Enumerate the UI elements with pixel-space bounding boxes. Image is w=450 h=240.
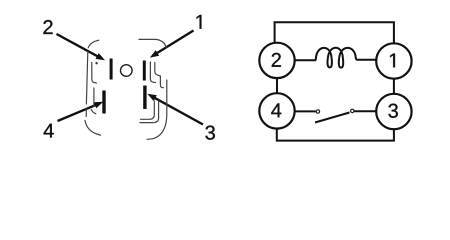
connector housing left half outline (85, 40, 101, 135)
wire terminal 2 to terminal 4 (276, 78, 278, 93)
wire bottom border (277, 129, 394, 141)
switch right contact (351, 109, 354, 112)
pin 4 terminal (102, 91, 105, 114)
lead line arrow to pin 4 (58, 102, 104, 121)
switch left contact (316, 110, 319, 113)
housing detail dot (95, 62, 97, 64)
terminal circle 1 (376, 43, 411, 78)
pin 2 terminal (110, 59, 113, 80)
lead line arrow to pin 1 (150, 31, 194, 58)
wire terminal 1 to terminal 3 (393, 79, 395, 94)
terminal circle 4 (259, 93, 294, 128)
wire top border (275, 22, 394, 43)
lead line arrow to pin 3 (147, 94, 203, 125)
connector housing right half outline (139, 39, 167, 139)
inductor coil (316, 48, 357, 68)
pin 3 terminal (143, 86, 146, 110)
terminal circle 2 (259, 43, 294, 78)
wire terminal 2 to coil (295, 59, 316, 61)
label pin 1 (197, 15, 202, 29)
wire coil to terminal 1 (356, 59, 376, 61)
terminal circle 3 (376, 94, 411, 129)
label pin 4 (44, 124, 54, 138)
wire terminal 4 to switch (295, 110, 316, 112)
lead line arrow to pin 2 (57, 34, 106, 60)
switch blade (315, 113, 350, 123)
label pin 3 (205, 126, 214, 140)
wire switch to terminal 3 (355, 110, 377, 112)
label pin 2 (43, 20, 52, 34)
pin 1 terminal (143, 61, 146, 81)
connector center hole (121, 65, 133, 77)
